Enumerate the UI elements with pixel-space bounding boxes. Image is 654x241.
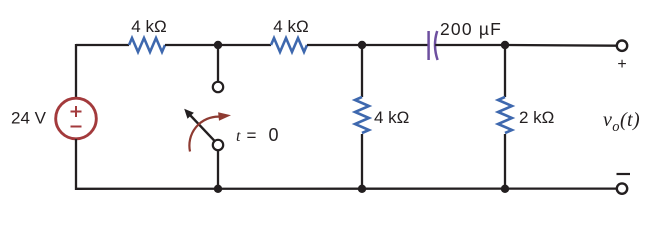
wire node A to switch top contact <box>217 45 219 82</box>
output terminal bottom <box>617 183 627 193</box>
output terminal top <box>617 41 627 51</box>
wire left rail lower <box>75 139 77 190</box>
wire node B to capacitor <box>362 44 428 46</box>
capacitor C1 200 uF right plate <box>435 31 438 60</box>
svg-text:2 kΩ: 2 kΩ <box>519 108 554 127</box>
node B junction dot <box>358 41 366 49</box>
svg-text:200 µF: 200 µF <box>440 19 502 39</box>
source plus sign <box>71 106 82 117</box>
node bottom below R4 <box>501 185 509 193</box>
resistor R2 4 kOhm horizontal <box>271 38 307 52</box>
wire node C to output top terminal <box>505 44 617 47</box>
switch motion arrowhead <box>218 112 231 121</box>
wire left rail upper <box>75 44 77 98</box>
wire capacitor to node C <box>435 44 505 46</box>
node C junction dot <box>501 41 509 49</box>
node bottom below switch <box>214 185 222 193</box>
source minus sign <box>71 126 82 128</box>
wire switch bottom contact to bottom rail <box>217 151 219 191</box>
wire node B down to R3 <box>361 45 363 97</box>
svg-text:4 kΩ: 4 kΩ <box>131 17 166 36</box>
node bottom below R3 <box>358 185 366 193</box>
node A junction dot <box>214 41 222 49</box>
svg-text:24 V: 24 V <box>11 109 47 128</box>
svg-text:4 kΩ: 4 kΩ <box>374 108 409 127</box>
wire bottom rail <box>76 187 617 189</box>
label minus output <box>617 173 631 175</box>
resistor R1 4 kOhm horizontal <box>129 38 165 52</box>
resistor R4 2 kOhm vertical <box>498 97 512 133</box>
wire node C down to R4 <box>504 45 506 97</box>
capacitor C1 200 uF left plate <box>427 31 430 60</box>
wire R1 to node A <box>165 44 271 46</box>
wire R2 to node B <box>307 44 362 46</box>
wire top-left segment <box>76 44 129 46</box>
resistor R3 4 kOhm vertical <box>355 97 369 133</box>
switch bottom contact <box>213 140 223 150</box>
svg-text:+: + <box>617 56 626 73</box>
switch top contact <box>213 82 223 92</box>
voltage source V1 24 V <box>56 98 97 139</box>
svg-text:4 kΩ: 4 kΩ <box>273 17 308 36</box>
switch motion arrow arc <box>189 117 219 152</box>
wire R3 to bottom rail <box>361 134 363 190</box>
wire R4 to bottom rail <box>504 134 506 190</box>
switch blade arrowhead <box>184 109 194 119</box>
switch blade <box>190 115 215 141</box>
